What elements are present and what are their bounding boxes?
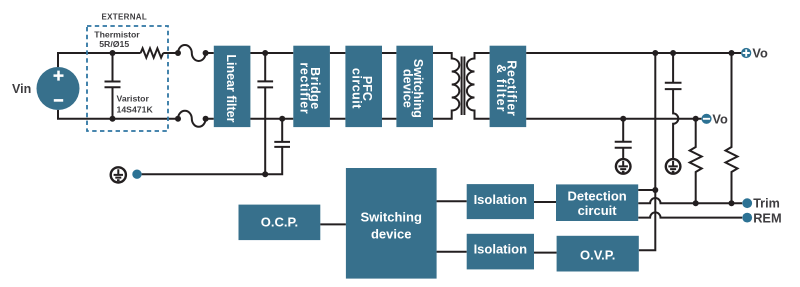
ground symbol (623) [616,159,631,174]
svg-text:Vin: Vin [12,82,31,96]
node [652,187,658,193]
capacitor output (612 to ground) [615,119,632,159]
node [670,50,676,56]
capacitor Y1 (top wire to PE) [257,53,273,174]
node bottom wire / varistor tap [110,116,116,122]
node [620,116,626,122]
wire isolation to OVP [534,252,557,254]
terminal -Vo [701,114,711,124]
block Switching device (control) [346,168,437,279]
varistor (plates symbol) [105,53,121,119]
node [729,200,735,206]
svg-text:Detection: Detection [567,188,626,203]
svg-text:14S471K: 14S471K [117,105,154,115]
node [279,116,285,122]
node [693,200,699,206]
block Detection circuit [556,184,638,221]
block O.C.P. [239,205,321,241]
svg-text:circuit: circuit [578,203,618,218]
wire isolation to detection [534,201,556,203]
wire rem line (detection to REM, hops vertical) [638,212,742,217]
node [175,116,181,122]
svg-text:Switching: Switching [361,210,422,225]
node PE junction [262,171,268,177]
wire PFC to switching device [382,53,396,119]
node [652,50,658,56]
svg-text:Vo: Vo [712,111,728,126]
wire +V output rail [526,52,741,54]
node [203,116,209,122]
wire SD to isolation bottom [437,251,467,253]
wire SD to isolation top [437,200,467,202]
dashed external box [87,26,168,131]
block Rectifier & filter [490,46,527,127]
resistor divider R1 (-V to trim) [690,119,702,203]
node top wire / varistor tap [110,50,116,56]
svg-text:EXTERNAL: EXTERNAL [102,13,148,22]
node [175,50,181,56]
terminal REM [742,213,752,223]
ground symbol (673) [666,159,681,174]
svg-text:Rectifier& filter: Rectifier& filter [494,60,519,116]
terminal Trim [742,198,752,208]
block O.V.P. [557,236,639,272]
wire detection circuit top output [638,189,655,191]
svg-text:Linear filter: Linear filter [224,54,238,122]
fuse squiggle top [178,45,206,61]
fuse squiggle bottom [178,111,206,127]
node [729,50,735,56]
node [203,50,209,56]
transformer T1 secondary [467,53,490,119]
svg-text:Isolation: Isolation [474,192,528,207]
block Switching device (primary) [396,46,433,127]
resistor divider R2 (+V to trim) [726,53,738,203]
block PFC circuit [345,46,382,127]
transformer T1 primary [433,53,459,119]
wire -V output rail [526,118,701,120]
block Bridge rectifier [293,46,330,127]
svg-text:Thermistor: Thermistor [94,29,140,39]
capacitor Y2 (bottom wire to PE) [142,119,290,174]
svg-text:O.V.P.: O.V.P. [580,247,615,262]
terminal PE dot [132,170,141,179]
svg-text:REM: REM [753,210,781,225]
source Vin [37,67,80,110]
block Isolation (top) [467,184,534,219]
wire top L (Vin to linear filter) [58,53,214,67]
wire feedback vertical (+V rail to detection/OVP) [639,53,656,250]
capacitor (673 rail to ground, hops -V wire) [665,53,682,159]
svg-text:Trim: Trim [753,196,780,210]
svg-text:Bridgerectifier: Bridgerectifier [298,62,323,114]
svg-text:5R/Ø15: 5R/Ø15 [99,39,129,49]
block Isolation (bottom) [467,234,534,270]
terminal +Vo [741,48,751,58]
node [693,116,699,122]
thermistor R (zigzag on top wire) [141,48,164,57]
wire trim line (detection to Trim, hops vertical) [638,198,742,203]
ground PE symbol [111,167,126,182]
svg-text:O.C.P.: O.C.P. [261,215,298,230]
node [262,50,268,56]
svg-text:Varistor: Varistor [117,94,150,104]
wire linear filter to bridge rectifier bottom [250,118,293,120]
wire BR to PFC [330,53,346,119]
svg-text:Isolation: Isolation [474,242,528,257]
wire linear filter to bridge rectifier top [250,52,293,54]
block Linear filter [214,46,251,127]
transformer core [462,57,465,116]
wire bottom N (Vin to linear filter) [58,110,214,119]
wire OCP to switching device [320,223,346,225]
svg-text:Vo: Vo [752,46,768,61]
svg-text:device: device [371,227,411,242]
